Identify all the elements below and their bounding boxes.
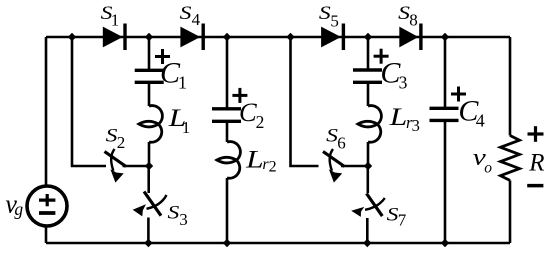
diode S1 — [103, 24, 125, 51]
wire left rail lower — [45, 226, 48, 243]
svg-text:L: L — [389, 102, 408, 131]
svg-text:3: 3 — [179, 210, 188, 229]
label S8 — [398, 4, 418, 30]
junction node bottom of C2 branch — [223, 239, 231, 247]
svg-text:S: S — [387, 205, 399, 225]
label S4 — [180, 4, 201, 29]
wire C4 branch upper — [444, 37, 447, 108]
wire C4 to bottom — [444, 120, 447, 243]
wire S2 branch vertical and stub — [72, 37, 106, 166]
switch S7 — [351, 194, 385, 217]
svg-text:7: 7 — [398, 210, 407, 229]
wire C3 to Lr3 — [367, 82, 370, 106]
wire S3 top stub — [147, 166, 150, 193]
wire S6 right stub — [341, 165, 368, 168]
label vo — [473, 145, 493, 177]
inductor Lr3 — [358, 106, 382, 143]
svg-text:4: 4 — [192, 10, 201, 29]
svg-text:S: S — [398, 4, 410, 24]
svg-text:S: S — [319, 4, 331, 24]
svg-text:C: C — [239, 97, 257, 127]
capacitor C1 — [135, 70, 164, 82]
svg-text:2: 2 — [117, 133, 126, 152]
svg-text:g: g — [14, 199, 23, 219]
label S2 — [106, 127, 126, 152]
svg-text:2: 2 — [256, 112, 265, 132]
wire C3 branch upper — [367, 37, 370, 70]
wire bottom rail — [46, 242, 510, 245]
wire right rail upper — [509, 37, 512, 136]
plus sign C4 — [451, 87, 466, 102]
plus sign C2 — [232, 88, 247, 103]
junction node top rail x=290 — [286, 33, 294, 41]
label Lr3 — [389, 102, 420, 135]
label S6 — [326, 127, 346, 153]
wire Lr2 to bottom — [226, 178, 229, 243]
wire C2 branch upper — [226, 37, 229, 109]
capacitor C2 — [212, 109, 241, 122]
svg-text:2: 2 — [269, 158, 277, 175]
svg-text:4: 4 — [476, 111, 485, 131]
svg-text:o: o — [484, 159, 492, 176]
minus sign output — [527, 184, 543, 188]
svg-text:3: 3 — [399, 73, 408, 93]
label S5 — [319, 4, 339, 30]
wire C2 to Lr2 — [226, 121, 229, 142]
label vg — [5, 190, 23, 219]
junction node bottom of S7 branch — [363, 239, 371, 247]
svg-text:L: L — [245, 144, 264, 173]
svg-text:1: 1 — [182, 118, 191, 137]
junction node top rail x=72 — [68, 33, 76, 41]
wire left rail upper — [45, 37, 48, 186]
diode S8 — [399, 24, 421, 51]
label S1 — [101, 4, 120, 30]
wire Lr3 to node — [367, 142, 370, 166]
plus sign C1 — [155, 49, 170, 64]
plus sign output — [528, 126, 544, 142]
wire right rail lower — [509, 180, 512, 243]
label S7 — [387, 205, 407, 229]
capacitor C3 — [353, 70, 382, 82]
label L1 — [168, 103, 191, 137]
junction node bottom of S3 branch — [144, 239, 152, 247]
junction node top of C2 branch — [223, 33, 231, 41]
switch S6 — [323, 149, 345, 183]
junction node bottom of C4 branch — [441, 239, 449, 247]
label C4 — [458, 94, 484, 130]
svg-text:S: S — [180, 4, 192, 24]
voltage source Vg — [27, 186, 67, 226]
switch S3 — [133, 192, 167, 217]
switch S2 — [105, 149, 127, 183]
inductor Lr2 — [217, 142, 241, 179]
capacitor C4 — [430, 108, 459, 120]
label C1 — [160, 56, 187, 92]
wire C1 to L1 — [148, 82, 151, 106]
resistor R — [501, 136, 520, 181]
wire S6 branch vertical and stub — [291, 37, 319, 166]
wire S7 bottom stub — [366, 218, 369, 243]
junction node A (L1-S2-S3) — [145, 162, 153, 170]
junction node top of C4 branch — [441, 33, 449, 41]
svg-text:S: S — [326, 127, 338, 147]
plus sign C3 — [374, 49, 389, 64]
svg-text:8: 8 — [409, 10, 418, 29]
svg-text:S: S — [106, 127, 118, 147]
wire S2 right stub — [123, 165, 150, 168]
label C3 — [380, 56, 407, 92]
svg-text:5: 5 — [330, 11, 339, 30]
wire L1 to node — [148, 142, 151, 166]
diode S4 — [180, 24, 203, 51]
svg-text:6: 6 — [337, 133, 346, 152]
wire C1 branch upper — [148, 37, 151, 70]
wire S7 top stub — [366, 166, 369, 193]
svg-text:S: S — [168, 204, 180, 224]
junction node top of C1 branch — [145, 33, 153, 41]
svg-text:1: 1 — [111, 11, 120, 30]
label S3 — [168, 204, 188, 229]
svg-text:R: R — [528, 150, 544, 177]
junction node top of C3 branch — [364, 33, 372, 41]
inductor L1 — [139, 106, 163, 143]
junction node B (Lr3-S6-S7) — [364, 162, 372, 170]
label C2 — [239, 97, 264, 132]
diode S5 — [321, 24, 343, 51]
svg-text:1: 1 — [178, 73, 187, 93]
wire S3 bottom stub — [147, 218, 150, 244]
wire top rail — [46, 36, 510, 39]
svg-text:3: 3 — [412, 116, 420, 135]
label Lr2 — [245, 144, 277, 175]
